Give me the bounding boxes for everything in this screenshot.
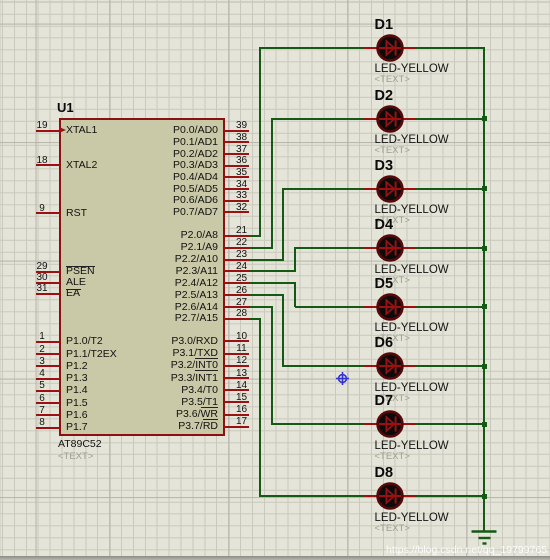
pin name P3.0/RXD [120,335,218,347]
LED D8 TEXT placeholder [375,524,410,534]
LED D8 value label LED-YELLOW [375,513,449,524]
pin number 33 [227,190,257,201]
wire to D5 anode horizontal segment [295,306,364,308]
wire D3 cathode to bus [416,188,485,190]
LED D3 TEXT placeholder [375,216,410,226]
U1 pin 19 (XTAL1) stub [36,130,60,132]
pin number 30 [27,272,57,283]
watermark [386,545,547,556]
wire to D3 anode horizontal segment [283,188,364,190]
wire D5 cathode to bus [416,306,485,308]
LED D6 reference label [375,336,394,350]
pin name P1.5 [66,397,88,409]
pin number 17 [227,416,257,427]
pin name P0.2/AD2 [120,148,218,160]
pin number 36 [227,155,257,166]
U1 pin 13 (P3.3/INT1) stub [224,377,250,379]
pin name P1.2 [66,360,88,372]
LED D7 reference label [375,394,394,408]
U1 pin 10 (P3.0/RXD) stub [224,340,250,342]
pin number 19 [27,120,57,131]
U1 pin 9 (RST) stub [36,212,60,214]
U1 pin 27 (P2.6/A14) stub [224,306,250,308]
pin name P3.7/RD [120,420,218,432]
LED D6 [363,350,417,382]
U1 pin 38 (P0.1/AD1) stub [224,141,250,143]
pin name XTAL2 [66,159,97,171]
junction at D8 cathode bus [482,494,487,499]
pin number 32 [227,202,257,213]
pin number 34 [227,179,257,190]
wire P2.5 vertical segment [282,294,284,367]
wire D4 cathode to bus [416,247,485,249]
LED D3 [363,173,417,205]
LED D2 reference label [375,89,394,103]
wire P2.5 pin 26 horizontal segment [249,294,285,296]
pin number 31 [27,283,57,294]
LED D5 TEXT placeholder [375,334,410,344]
pin name P1.7 [66,421,88,433]
origin crosshair cursor [328,364,357,393]
LED D8 [363,480,417,512]
U1 pin 23 (P2.2/A10) stub [224,259,250,261]
LED D3 value label LED-YELLOW [375,205,449,216]
pin name P2.5/A13 [120,289,218,301]
U1 pin 30 (ALE) stub [36,282,60,284]
LED D7 TEXT placeholder [375,452,410,462]
U1 pin 36 (P0.3/AD3) stub [224,165,250,167]
LED D5 [363,291,417,323]
pin name P3.3/INT1 [120,372,218,384]
pin number 22 [227,237,257,248]
wire P2.6 pin 27 horizontal segment [249,306,273,308]
pin number 27 [227,297,257,308]
pin name P2.6/A14 [120,301,218,313]
U1 pin 4 (P1.3) stub [36,378,60,380]
pin number 39 [227,120,257,131]
pin name P0.5/AD5 [120,183,218,195]
wire D8 cathode to bus [416,495,485,497]
overline for PSEN [66,266,95,267]
LED D6 value label LED-YELLOW [375,383,449,394]
pin name P0.6/AD6 [120,194,218,206]
U1 pin 17 (P3.7/RD) stub [224,426,250,428]
pin name P0.3/AD3 [120,159,218,171]
LED D2 value label LED-YELLOW [375,135,449,146]
wire to D8 anode horizontal segment [260,495,364,497]
junction at D5 cathode bus [482,304,487,309]
pin number 35 [227,167,257,178]
XTAL1 clock input arrow [59,127,66,133]
pin name P0.7/AD7 [120,206,218,218]
pin name P0.1/AD1 [120,136,218,148]
wire P2.7 pin 28 horizontal segment [249,318,262,320]
overline for EA [66,289,81,290]
pin number 38 [227,132,257,143]
wire P2.2 pin 23 horizontal segment [249,259,285,261]
pin name P2.1/A9 [120,241,218,253]
pin number 2 [27,344,57,355]
LED D5 reference label [375,277,394,291]
wire P2.7 vertical segment [259,318,261,498]
U1 pin 14 (P3.4/T0) stub [224,389,250,391]
pin name P1.1/T2EX [66,348,117,360]
junction at D6 cathode bus [482,364,487,369]
LED D5 value label LED-YELLOW [375,323,449,334]
U1 pin 29 (PSEN) stub [36,271,60,273]
pin name XTAL1 [66,124,97,136]
wire D6 cathode to bus [416,365,485,367]
wire P2.1 pin 22 horizontal segment [249,247,273,249]
pin name P2.4/A12 [120,277,218,289]
pin name P2.7/A15 [120,312,218,324]
pin number 8 [27,417,57,428]
wire P2.2 vertical segment [282,188,284,261]
LED D4 reference label [375,218,394,232]
junction at D2 cathode bus [482,116,487,121]
pin number 16 [227,404,257,415]
pin number 6 [27,393,57,404]
junction at D3 cathode bus [482,186,487,191]
pin number 5 [27,380,57,391]
wire P2.1 vertical segment [271,118,273,249]
pin name P0.0/AD0 [120,124,218,136]
U1 pin 25 (P2.4/A12) stub [224,282,250,284]
LED D4 TEXT placeholder [375,276,410,286]
wire D1 cathode to bus [416,47,485,49]
overline for WR [201,407,219,408]
U1 pin 31 (EA) stub [36,293,60,295]
pin name P3.2/INT0 [120,359,218,371]
wire P2.4 vertical segment [294,282,296,307]
U1 reference label [57,101,74,115]
pin number 7 [27,405,57,416]
LED D1 reference label [375,18,394,32]
U1 pin 32 (P0.7/AD7) stub [224,211,250,213]
pin number 1 [27,331,57,342]
IC U1 AT89C52 body [59,118,225,436]
U1 pin 18 (XTAL2) stub [36,164,60,166]
wire P2.3 pin 24 horizontal segment [249,270,296,272]
wire P2.0 pin 21 horizontal segment [249,235,262,237]
U1 TEXT placeholder [58,452,93,462]
pin number 26 [227,285,257,296]
pin number 4 [27,368,57,379]
U1 pin 16 (P3.6/WR) stub [224,414,250,416]
overline for RD [203,419,218,420]
pin number 9 [27,203,57,214]
pin number 3 [27,356,57,367]
pin name ALE [66,276,86,288]
wire to D2 anode horizontal segment [272,118,365,120]
pin name P2.3/A11 [120,265,218,277]
bottom window edge [0,556,550,560]
pin number 24 [227,261,257,272]
U1 pin 7 (P1.6) stub [36,414,60,416]
pin name P3.5/T1 [120,396,218,408]
wire P2.4 pin 25 horizontal segment [249,282,296,284]
pin name P1.4 [66,384,88,396]
pin number 13 [227,368,257,379]
pin number 28 [227,308,257,319]
pin number 11 [227,343,257,354]
LED D8 reference label [375,466,394,480]
LED D7 [363,408,417,440]
LED D2 [363,103,417,135]
pin name P3.1/TXD [120,347,218,359]
pin name RST [66,207,87,219]
U1 pin 28 (P2.7/A15) stub [224,318,250,320]
U1 pin 22 (P2.1/A9) stub [224,247,250,249]
LED D6 TEXT placeholder [375,394,410,404]
U1 pin 39 (P0.0/AD0) stub [224,130,250,132]
pin number 18 [27,155,57,166]
pin name P1.0/T2 [66,335,103,347]
pin name EA [66,287,80,299]
pin name PSEN [66,265,95,277]
U1 pin 33 (P0.6/AD6) stub [224,200,250,202]
pin name P2.0/A8 [120,229,218,241]
U1 pin 37 (P0.2/AD2) stub [224,153,250,155]
U1 pin 34 (P0.5/AD5) stub [224,188,250,190]
LED D1 TEXT placeholder [375,75,410,85]
U1 pin 2 (P1.1/T2EX) stub [36,353,60,355]
wire D2 cathode to bus [416,118,485,120]
wire to D1 anode horizontal segment [260,47,364,49]
U1 pin 1 (P1.0/T2) stub [36,341,60,343]
pin number 10 [227,331,257,342]
U1 pin 35 (P0.4/AD4) stub [224,176,250,178]
U1 pin 24 (P2.3/A11) stub [224,270,250,272]
ground symbol [468,528,500,546]
U1 pin 12 (P3.2/INT0) stub [224,365,250,367]
pin name P1.3 [66,372,88,384]
pin name P0.4/AD4 [120,171,218,183]
wire P2.0 vertical segment [259,47,261,237]
wire to D6 anode horizontal segment [283,365,364,367]
pin number 29 [27,261,57,272]
pin name P2.2/A10 [120,253,218,265]
junction at D7 cathode bus [482,422,487,427]
pin name P3.4/T0 [120,384,218,396]
LED D4 [363,232,417,264]
pin number 14 [227,380,257,391]
LED D2 TEXT placeholder [375,146,410,156]
LED D1 value label LED-YELLOW [375,64,449,75]
overline for INT0 [195,358,218,359]
LED D7 value label LED-YELLOW [375,441,449,452]
pin number 23 [227,249,257,260]
U1 pin 8 (P1.7) stub [36,427,60,429]
pin number 12 [227,355,257,366]
LED D3 reference label [375,159,394,173]
wire D7 cathode to bus [416,423,485,425]
pin number 25 [227,273,257,284]
LED D4 value label LED-YELLOW [375,265,449,276]
wire ground bus vertical [483,47,485,531]
U1 value label AT89C52 [58,438,102,450]
overline for INT1 [195,370,218,371]
pin number 15 [227,392,257,403]
U1 pin 15 (P3.5/T1) stub [224,401,250,403]
LED D1 [363,32,417,64]
pin number 37 [227,144,257,155]
pin name P3.6/WR [120,408,218,420]
wire to D7 anode horizontal segment [272,423,365,425]
U1 pin 6 (P1.5) stub [36,402,60,404]
U1 pin 21 (P2.0/A8) stub [224,235,250,237]
wire to D4 anode horizontal segment [295,247,364,249]
wire P2.6 vertical segment [271,306,273,425]
U1 pin 3 (P1.2) stub [36,365,60,367]
U1 pin 11 (P3.1/TXD) stub [224,353,250,355]
U1 pin 26 (P2.5/A13) stub [224,294,250,296]
pin name P1.6 [66,409,88,421]
wire P2.3 vertical segment [294,247,296,272]
pin number 21 [227,225,257,236]
junction at D4 cathode bus [482,246,487,251]
U1 pin 5 (P1.4) stub [36,390,60,392]
